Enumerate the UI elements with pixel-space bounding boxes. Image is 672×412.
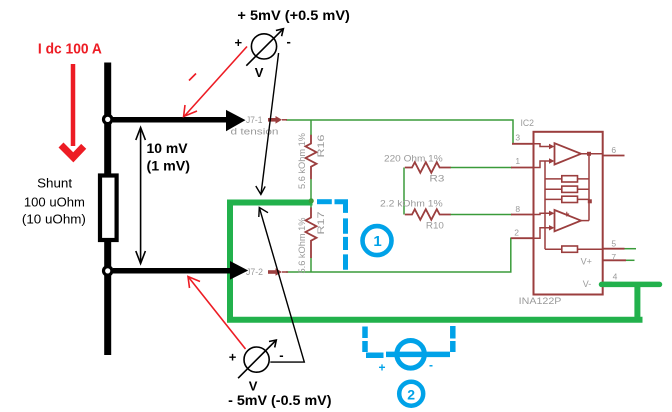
- svg-text:2: 2: [514, 228, 519, 238]
- svg-text:R16: R16: [316, 135, 326, 158]
- svg-text:- 5mV (-0.5 mV): - 5mV (-0.5 mV): [228, 393, 331, 408]
- svg-text:+: +: [564, 209, 570, 220]
- svg-text:IC2: IC2: [521, 118, 535, 128]
- svg-text:+: +: [235, 35, 243, 50]
- svg-text:220 Ohm 1%: 220 Ohm 1%: [384, 153, 443, 163]
- svg-text:-: -: [287, 34, 291, 49]
- svg-text:1: 1: [373, 233, 381, 250]
- svg-text:R3: R3: [429, 173, 444, 183]
- svg-text:V: V: [249, 379, 258, 394]
- svg-text:+: +: [379, 361, 386, 375]
- svg-text:5: 5: [611, 239, 616, 249]
- svg-text:-: -: [429, 358, 433, 372]
- svg-text:J7-2: J7-2: [246, 267, 263, 277]
- svg-text:-: -: [279, 348, 283, 363]
- svg-text:V-: V-: [583, 279, 592, 289]
- svg-text:+ 5mV (+0.5 mV): + 5mV (+0.5 mV): [237, 8, 350, 23]
- svg-text:INA122P: INA122P: [519, 296, 562, 306]
- svg-text:100 uOhm: 100 uOhm: [24, 196, 85, 210]
- svg-text:R10: R10: [426, 221, 444, 231]
- svg-text:(10 uOhm): (10 uOhm): [22, 212, 86, 226]
- svg-text:V: V: [255, 65, 264, 80]
- svg-text:Shunt: Shunt: [37, 176, 73, 190]
- svg-text:R17: R17: [316, 212, 326, 235]
- svg-text:1: 1: [515, 156, 520, 166]
- svg-text:d tension: d tension: [231, 127, 279, 137]
- svg-text:8: 8: [515, 204, 520, 214]
- svg-text:J7-1: J7-1: [246, 115, 262, 125]
- svg-text:(1 mV): (1 mV): [147, 157, 191, 173]
- svg-text:2: 2: [407, 387, 415, 403]
- svg-text:10 mV: 10 mV: [147, 140, 189, 156]
- svg-text:6: 6: [611, 145, 616, 155]
- svg-text:5.6 kOhm 1%: 5.6 kOhm 1%: [297, 218, 307, 274]
- svg-text:7: 7: [611, 252, 616, 262]
- svg-text:3: 3: [515, 133, 520, 143]
- svg-text:V+: V+: [581, 256, 592, 266]
- svg-text:+: +: [229, 350, 237, 365]
- svg-text:4: 4: [613, 272, 618, 282]
- svg-text:5.6 kOhm 1%: 5.6 kOhm 1%: [297, 133, 307, 189]
- svg-text:I dc 100 A: I dc 100 A: [38, 41, 102, 57]
- svg-text:2.2 kOhm 1%: 2.2 kOhm 1%: [380, 199, 443, 209]
